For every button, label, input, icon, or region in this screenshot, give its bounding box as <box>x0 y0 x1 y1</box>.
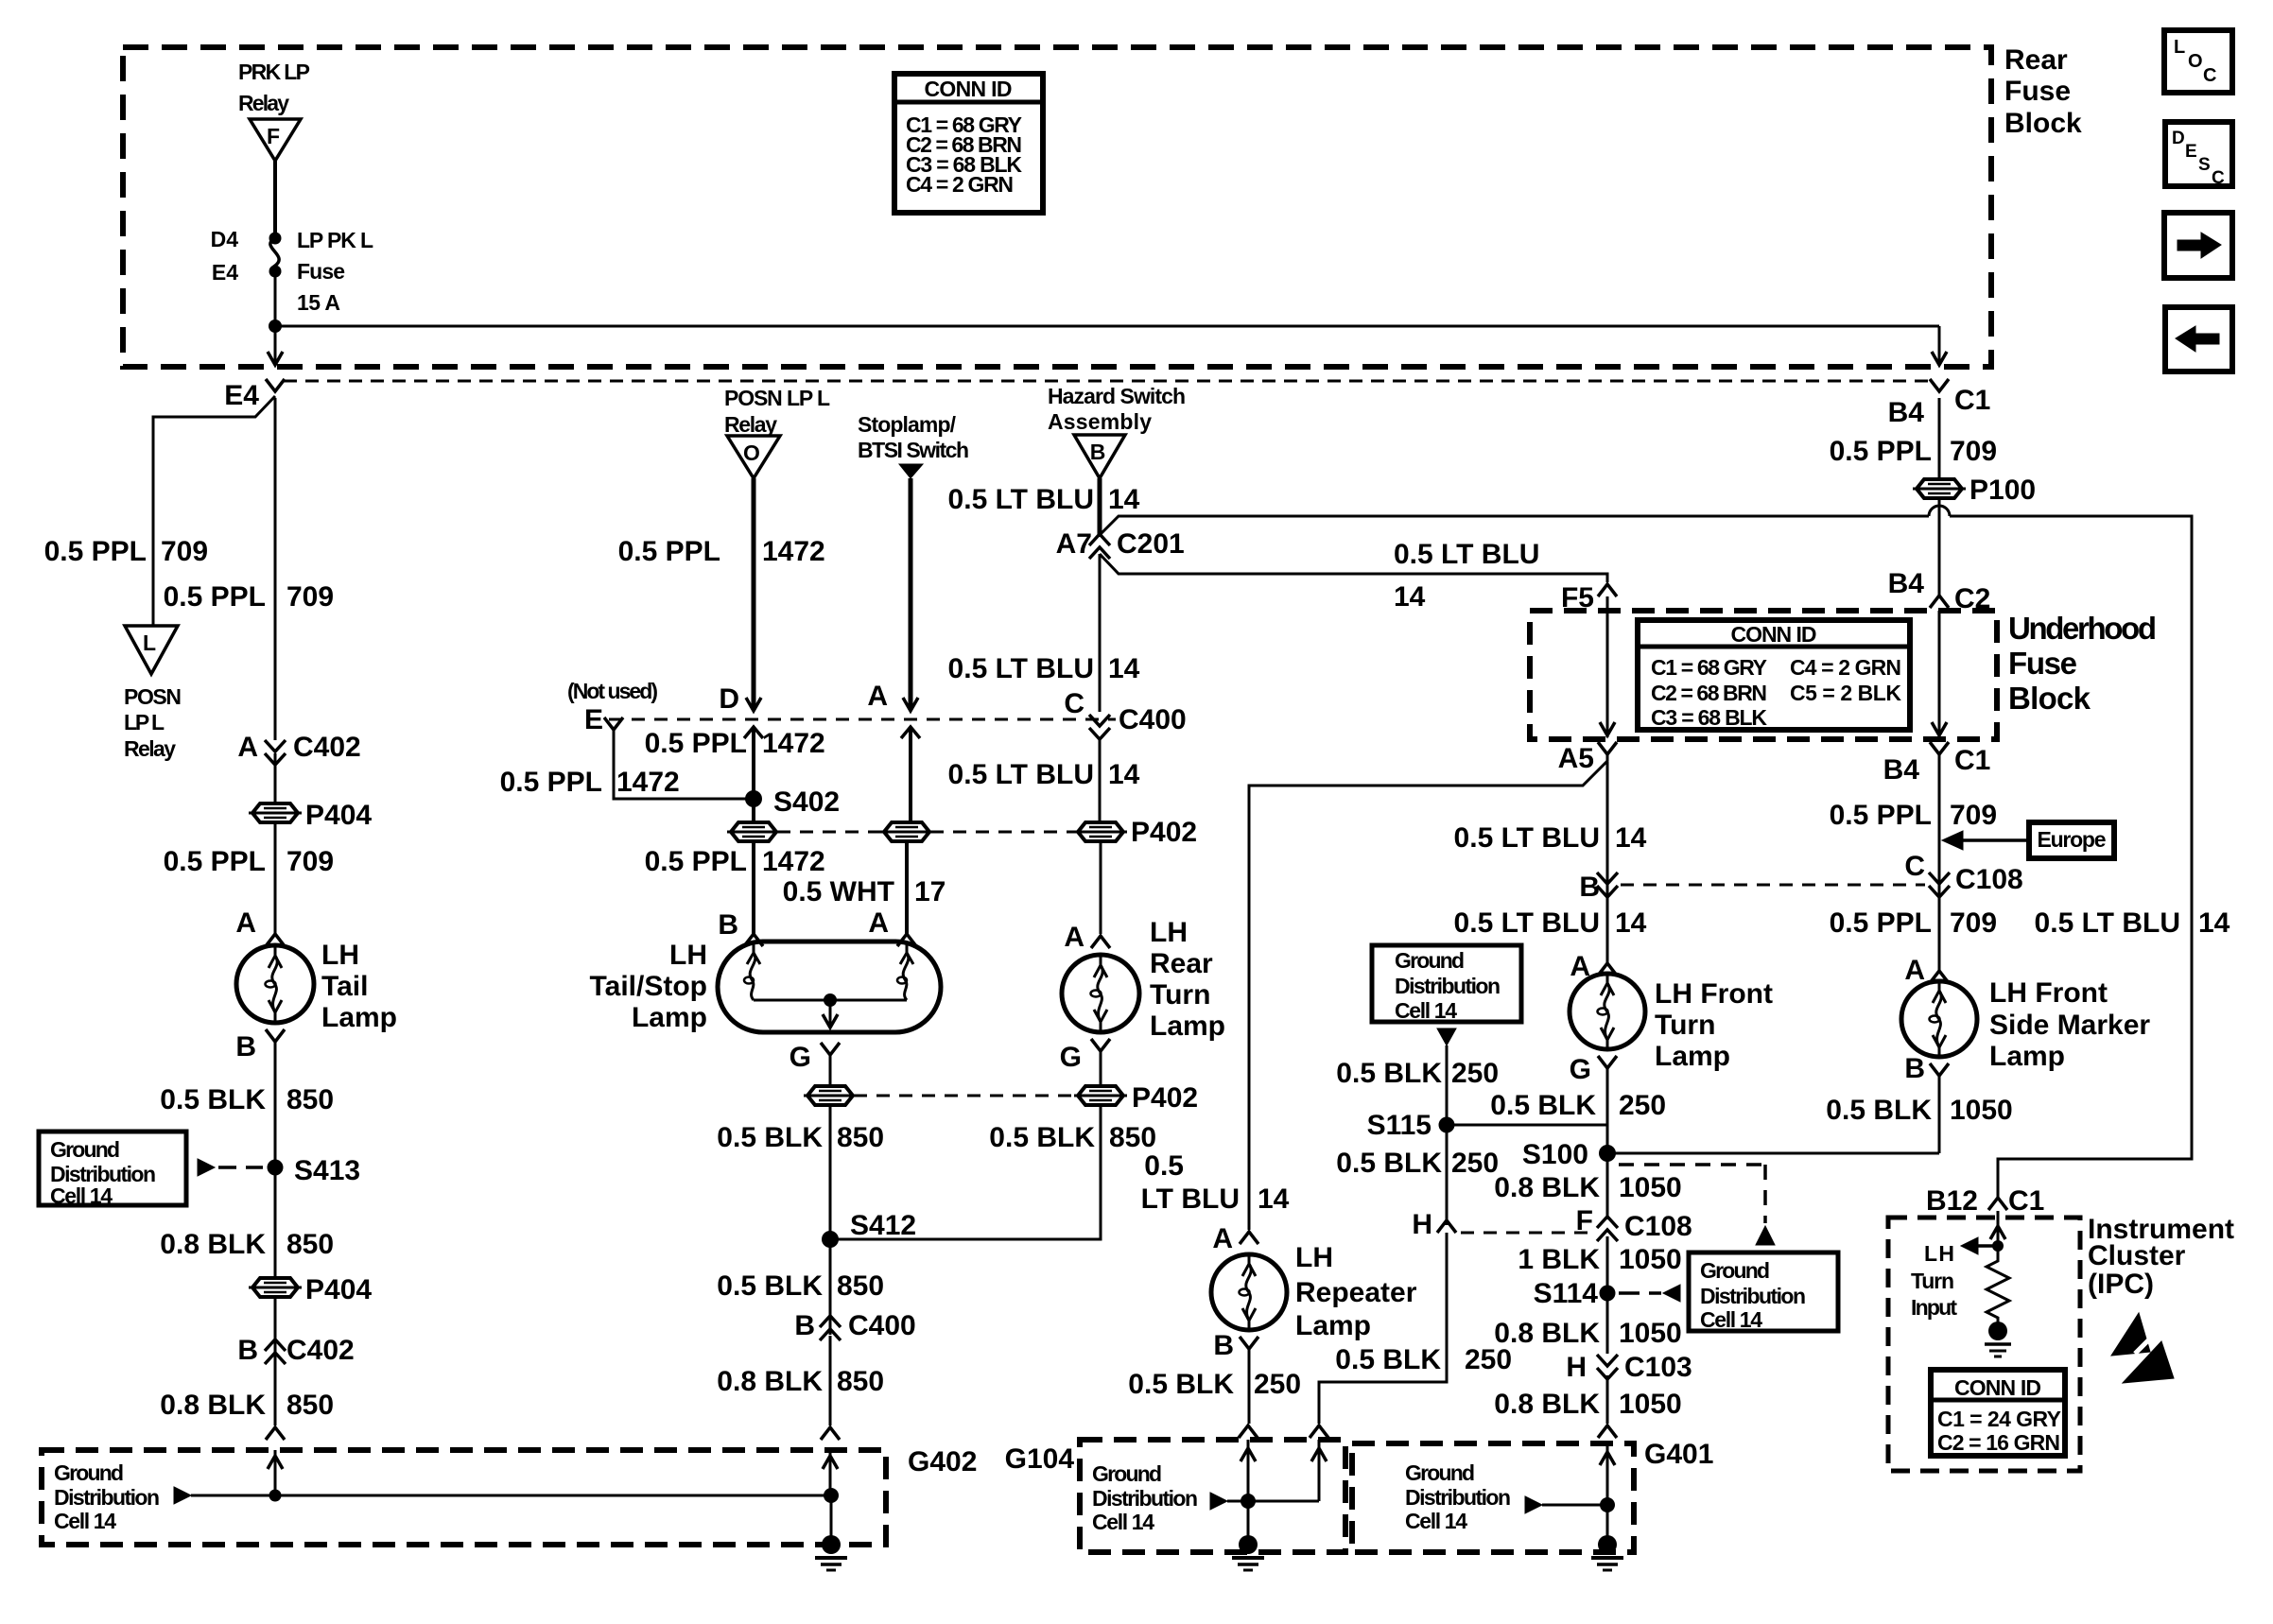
wire P402 to S412 <box>829 1105 832 1239</box>
svg-text:250: 250 <box>1619 1090 1666 1121</box>
svg-text:0.5 WHT: 0.5 WHT <box>783 876 894 907</box>
svg-text:C1: C1 <box>1954 385 1990 416</box>
pin into G401 <box>1598 1425 1617 1438</box>
label Hazard Switch Assembly <box>1048 384 1186 434</box>
svg-text:BTSI Switch: BTSI Switch <box>858 438 969 462</box>
relay PRK LP Relay label <box>238 60 310 115</box>
svg-text:1050: 1050 <box>1619 1172 1682 1203</box>
svg-text:CONN ID: CONN ID <box>925 77 1013 101</box>
svg-text:O: O <box>2188 51 2203 72</box>
svg-text:S115: S115 <box>1367 1110 1431 1141</box>
svg-text:0.5 BLK: 0.5 BLK <box>1826 1095 1932 1126</box>
wire rear turn return to S412 <box>830 1105 1101 1239</box>
wire repeater B to G104 <box>1248 1349 1251 1424</box>
wire C402 to P404 <box>274 753 277 803</box>
wire label 0.5 PPL 1472 below C400 <box>645 728 825 759</box>
reference arrow LH turn input <box>1961 1237 2004 1254</box>
wire S100 to side marker return <box>1607 1152 1939 1155</box>
lamp LH Front Side Marker Lamp <box>1901 981 1977 1057</box>
label LH Tail Stop Lamp <box>590 940 707 1033</box>
svg-text:P402: P402 <box>1131 817 1197 848</box>
reference arrow down from callout <box>1437 1028 1456 1045</box>
svg-text:Fuse: Fuse <box>2008 646 2077 681</box>
wire label 0.5 PPL 709 below C108 <box>1830 907 1997 939</box>
svg-text:0.5 BLK: 0.5 BLK <box>989 1122 1095 1153</box>
wire hop over PPL wire <box>1929 506 1950 516</box>
svg-text:1050: 1050 <box>1619 1244 1682 1275</box>
svg-text:PRK LP: PRK LP <box>238 60 310 84</box>
wire label 0.5 BLK 850 <box>160 1084 334 1115</box>
wire segment S115 bus to S100 <box>1606 1125 1609 1153</box>
svg-text:G104: G104 <box>1005 1443 1075 1475</box>
label B4 C2 at underhood top <box>1888 568 1991 614</box>
svg-text:250: 250 <box>1451 1058 1499 1089</box>
svg-text:0.8 BLK: 0.8 BLK <box>160 1229 266 1260</box>
ESD warning symbol <box>2111 1313 2174 1383</box>
dashed reference S100 to ground distribution <box>1619 1165 1775 1245</box>
label LH Turn Input <box>1911 1241 1957 1320</box>
svg-text:14: 14 <box>1615 907 1647 939</box>
svg-text:14: 14 <box>1108 759 1140 790</box>
node E4 fuse output <box>212 260 282 285</box>
label Stoplamp BTSI Switch <box>858 412 969 462</box>
svg-text:250: 250 <box>1451 1148 1499 1179</box>
svg-text:(IPC): (IPC) <box>2088 1269 2154 1300</box>
svg-text:709: 709 <box>1950 800 1997 831</box>
svg-text:D: D <box>719 683 739 715</box>
svg-text:LH: LH <box>1150 917 1188 948</box>
pin B of LH Repeater Lamp <box>1213 1330 1258 1361</box>
svg-text:Underhood: Underhood <box>2008 611 2157 646</box>
svg-text:C: C <box>2203 65 2216 86</box>
switch stoplamp source triangle <box>899 464 923 478</box>
Underhood Fuse Block dashed enclosure <box>1530 611 1997 739</box>
wire label 0.8 BLK 1050 below S100 <box>1494 1172 1681 1203</box>
svg-text:A: A <box>235 907 256 939</box>
wire label 0.5 LT BLU 14 above C400 <box>948 653 1140 684</box>
svg-text:0.5 PPL: 0.5 PPL <box>1830 436 1932 467</box>
pin A chevron below C400 <box>901 727 920 738</box>
pin G of LH Front Turn Lamp <box>1570 1054 1617 1085</box>
svg-text:0.5: 0.5 <box>1144 1150 1184 1182</box>
reference arrow in G401 <box>1525 1496 1542 1513</box>
connector row P402 dashed line lower <box>854 1095 1077 1097</box>
pin G of LH Tail Stop Lamp <box>789 1042 840 1073</box>
ground box G402 dashed enclosure <box>42 1450 886 1545</box>
svg-text:850: 850 <box>286 1229 334 1260</box>
svg-text:Ground: Ground <box>1700 1258 1770 1283</box>
label LH Rear Turn Lamp <box>1150 917 1225 1042</box>
svg-text:A: A <box>237 732 258 763</box>
reference arrow in G402 <box>174 1487 191 1504</box>
svg-text:B: B <box>794 1310 815 1341</box>
svg-text:Lamp: Lamp <box>1150 1011 1225 1042</box>
label Ground Distribution Cell 14 in G402 <box>54 1460 160 1533</box>
wire C1 to P100 <box>1938 398 1941 479</box>
wire S115 to front turn G <box>1447 1124 1607 1127</box>
svg-text:LH Front: LH Front <box>1989 977 2108 1009</box>
junction G104 <box>1241 1494 1256 1509</box>
svg-text:G: G <box>789 1042 811 1073</box>
ground box G401 dashed enclosure <box>1352 1443 1634 1552</box>
svg-text:A5: A5 <box>1558 743 1594 774</box>
wire common to lamp shell with arrow <box>823 1000 838 1028</box>
svg-text:A: A <box>868 907 889 939</box>
svg-text:15 A: 15 A <box>297 290 340 315</box>
svg-text:850: 850 <box>286 1390 334 1421</box>
svg-text:LH: LH <box>669 940 707 971</box>
svg-text:C1 = 68 GRY: C1 = 68 GRY <box>1651 655 1767 680</box>
svg-text:Lamp: Lamp <box>1295 1310 1371 1341</box>
pin C1 B4 of Underhood Fuse Block <box>1883 742 1991 786</box>
wire hazard B down to C201 <box>1098 478 1102 537</box>
svg-text:S413: S413 <box>294 1155 360 1186</box>
svg-text:A7: A7 <box>1056 528 1092 560</box>
svg-text:0.5 BLK: 0.5 BLK <box>717 1122 823 1153</box>
connector C402 pin B <box>237 1335 354 1366</box>
connector P402 pass-through lower right <box>1078 1086 1123 1105</box>
connector P402 pass-through on WHT wire <box>884 822 929 841</box>
wire label 0.5 BLK 1050 <box>1826 1095 2012 1126</box>
svg-text:14: 14 <box>1615 822 1647 854</box>
ground box G104 dashed enclosure <box>1080 1440 1345 1552</box>
connector P402 pass-through on LT BLU wire <box>1078 822 1123 841</box>
wire P402 to rear turn lamp <box>1100 841 1102 934</box>
pin A of LH Front Side Marker Lamp <box>1904 955 1949 986</box>
wire into G104 with up arrow right pin <box>1311 1440 1327 1501</box>
connector C402 pin A <box>237 732 360 765</box>
svg-text:1050: 1050 <box>1619 1389 1682 1420</box>
svg-text:Distribution: Distribution <box>1405 1485 1511 1510</box>
wire label 0.5 LT BLU 14 far right <box>2035 907 2230 939</box>
wire label 1 BLK 1050 <box>1518 1244 1681 1275</box>
relay POSN LP L triangle L <box>125 626 178 674</box>
svg-text:B: B <box>237 1335 258 1366</box>
connector P404 pass-through lower <box>249 1274 372 1305</box>
wire relay O to C400 D <box>752 478 756 709</box>
svg-text:C108: C108 <box>1624 1211 1692 1242</box>
connector pin C1 B4 at boundary <box>1888 379 1991 428</box>
lamp LH Tail Lamp <box>236 945 314 1023</box>
svg-text:0.5 PPL: 0.5 PPL <box>1830 800 1932 831</box>
wire label LT BLU 14 two line <box>1141 1183 1290 1215</box>
svg-text:Stoplamp/: Stoplamp/ <box>858 412 957 437</box>
svg-text:850: 850 <box>837 1270 884 1302</box>
label LH Front Side Marker Lamp <box>1989 977 2150 1072</box>
svg-text:S114: S114 <box>1534 1278 1599 1309</box>
pin B of LH Front Side Marker Lamp <box>1904 1053 1949 1084</box>
svg-text:P402: P402 <box>1132 1082 1198 1114</box>
wire label 0.5 BLK 850 left <box>717 1122 884 1153</box>
svg-text:C2 = 16 GRN: C2 = 16 GRN <box>1937 1430 2060 1455</box>
wire P404 to C402 B <box>274 1297 277 1366</box>
connector pin E4 at boundary <box>224 379 285 411</box>
svg-text:Cell 14: Cell 14 <box>54 1509 116 1533</box>
svg-text:17: 17 <box>914 876 946 907</box>
svg-text:P100: P100 <box>1969 475 2036 506</box>
wire label 0.8 BLK 1050 bottom <box>1494 1389 1681 1420</box>
svg-text:0.8 BLK: 0.8 BLK <box>160 1390 266 1421</box>
svg-text:Assembly: Assembly <box>1048 409 1152 434</box>
junction ground bus with G402 ground drop <box>824 1488 839 1503</box>
Instrument Cluster dashed enclosure <box>1888 1218 2080 1471</box>
CONN ID table (IPC) <box>1931 1370 2065 1456</box>
svg-text:850: 850 <box>837 1366 884 1397</box>
CONN ID table (Underhood Fuse Block) <box>1638 620 1910 730</box>
svg-text:1050: 1050 <box>1619 1318 1682 1349</box>
svg-text:709: 709 <box>1950 436 1997 467</box>
pin G of LH Rear Turn Lamp <box>1060 1039 1110 1073</box>
svg-text:Lamp: Lamp <box>1655 1041 1730 1072</box>
wire S100 down to C108 F <box>1606 1153 1609 1219</box>
svg-text:0.5 PPL: 0.5 PPL <box>1830 907 1932 939</box>
wire filament common bar <box>754 999 907 1002</box>
wire label 0.5 PPL 1472 E branch <box>500 767 680 798</box>
svg-text:P404: P404 <box>305 800 372 831</box>
connector P404 pass-through <box>249 800 372 831</box>
svg-text:H: H <box>1412 1209 1432 1240</box>
wire label 0.5 BLK 850 below S412 <box>717 1270 884 1302</box>
svg-text:A: A <box>1064 922 1084 953</box>
ground G402 earth symbol <box>815 1495 847 1570</box>
wire side marker B to S100 <box>1938 1076 1941 1153</box>
connector C103 pin H <box>1566 1352 1692 1383</box>
svg-text:Cell 14: Cell 14 <box>50 1183 113 1208</box>
wire tail lamp B to S413 <box>274 1042 277 1167</box>
svg-text:Input: Input <box>1911 1295 1957 1320</box>
svg-text:E4: E4 <box>224 380 259 411</box>
svg-text:Rear: Rear <box>2004 44 2068 76</box>
svg-text:Ground: Ground <box>50 1137 120 1162</box>
wire E4 down and 45-degree branch to POSN relay <box>153 396 275 626</box>
svg-text:LH: LH <box>1924 1241 1954 1266</box>
wire C201 to IPC via right edge <box>1100 516 1929 535</box>
connector P402 pass-through on PPL wire <box>731 822 776 841</box>
wire C400 B to G402 <box>829 1336 832 1425</box>
junction G401 <box>1600 1497 1615 1512</box>
svg-text:14: 14 <box>1108 653 1140 684</box>
svg-text:C201: C201 <box>1117 528 1185 560</box>
svg-text:0.5 BLK: 0.5 BLK <box>1128 1369 1234 1400</box>
splice S100 <box>1522 1139 1616 1170</box>
label POSN LP L Relay <box>124 684 182 761</box>
svg-text:Fuse: Fuse <box>2004 76 2071 107</box>
switch Hazard triangle B <box>1074 435 1125 478</box>
Europe label box <box>2029 822 2114 858</box>
node D4 <box>211 227 282 251</box>
svg-text:Turn: Turn <box>1655 1010 1715 1041</box>
svg-text:0.5 LT BLU: 0.5 LT BLU <box>948 653 1094 684</box>
svg-text:C400: C400 <box>1119 704 1187 735</box>
svg-text:Hazard Switch: Hazard Switch <box>1048 384 1186 408</box>
wire C1 underhood down to side marker <box>1938 754 1941 971</box>
relay PRK LP Relay triangle F <box>250 119 301 161</box>
pin into G402 box right <box>821 1427 840 1440</box>
svg-text:C402: C402 <box>293 732 361 763</box>
svg-text:1472: 1472 <box>616 767 680 798</box>
svg-text:1472: 1472 <box>762 536 825 567</box>
svg-text:Distribution: Distribution <box>1700 1284 1806 1308</box>
connector C400 pin C <box>1064 688 1186 739</box>
wire relay F to fuse D4 <box>273 161 277 238</box>
wire label 0.5 BLK 250 on S115 bus <box>1490 1090 1666 1121</box>
wire label 0.8 BLK 1050 below S114 <box>1494 1318 1681 1349</box>
connector C400 pin B <box>794 1310 915 1341</box>
wire C201 to F5 underhood <box>1100 554 1607 582</box>
connector C108 pin F <box>1576 1205 1692 1242</box>
svg-text:0.8 BLK: 0.8 BLK <box>1494 1389 1600 1420</box>
svg-text:0.8 BLK: 0.8 BLK <box>1494 1172 1600 1203</box>
svg-text:C3 = 68 BLK: C3 = 68 BLK <box>1651 705 1767 730</box>
svg-text:Turn: Turn <box>1911 1269 1954 1293</box>
wire C2 through underhood box with arrow <box>1932 611 1947 737</box>
svg-text:709: 709 <box>286 581 334 613</box>
wire S114 to C103 <box>1606 1293 1609 1354</box>
reference arrow in G104 <box>1210 1493 1227 1510</box>
svg-text:Distribution: Distribution <box>1092 1486 1198 1511</box>
svg-text:Relay: Relay <box>124 736 176 761</box>
svg-text:S412: S412 <box>850 1210 916 1241</box>
svg-text:C103: C103 <box>1624 1352 1692 1383</box>
svg-text:H: H <box>1566 1352 1587 1383</box>
svg-text:S: S <box>2198 155 2211 175</box>
svg-text:B4: B4 <box>1883 754 1920 786</box>
label LH Tail Lamp <box>321 940 397 1033</box>
label Instrument Cluster IPC <box>2088 1214 2234 1300</box>
svg-text:B: B <box>718 909 738 941</box>
wire label 0.5 BLK 850 right <box>989 1122 1156 1153</box>
svg-text:LH: LH <box>321 940 359 971</box>
wire into G402 with up arrow right <box>823 1450 838 1495</box>
wire P402 to tail stop lamp B <box>752 841 755 934</box>
svg-text:0.5 LT BLU: 0.5 LT BLU <box>1394 539 1539 570</box>
Rear Fuse Block dashed enclosure <box>123 47 1991 367</box>
wire label 0.5 PPL 709 below underhood <box>1830 800 1997 831</box>
svg-text:C: C <box>1904 851 1925 882</box>
pin A arrow into C400 <box>867 681 918 712</box>
svg-text:F: F <box>267 124 280 148</box>
pin A5 of Underhood Fuse Block <box>1558 742 1617 774</box>
pin into G104 left <box>1239 1425 1258 1438</box>
label LH Repeater Lamp <box>1295 1242 1417 1341</box>
svg-text:0.5 LT BLU: 0.5 LT BLU <box>1454 822 1600 854</box>
wire D to S402 <box>752 727 755 822</box>
wire label 0.5 PPL 709 main <box>164 581 334 613</box>
connector C201 pin A7 <box>1056 528 1185 560</box>
svg-text:C: C <box>1064 688 1084 719</box>
svg-text:0.5 PPL: 0.5 PPL <box>645 846 747 877</box>
wire A5 down to front turn lamp <box>1606 762 1609 963</box>
pin D chevron below C400 <box>744 727 763 738</box>
wire label 0.5 BLK 250 to G104 <box>1335 1344 1512 1375</box>
connector row C108 dashed line lower <box>1461 1232 1594 1235</box>
label LH Front Turn Lamp <box>1655 978 1773 1072</box>
wire label 0.5 BLK 250 below S115 <box>1336 1148 1499 1179</box>
svg-text:1472: 1472 <box>762 728 825 759</box>
svg-text:0.5 LT BLU: 0.5 LT BLU <box>948 759 1094 790</box>
wire into G401 with up arrow <box>1600 1443 1615 1505</box>
svg-text:850: 850 <box>286 1084 334 1115</box>
svg-text:0.5 BLK: 0.5 BLK <box>717 1270 823 1302</box>
svg-text:Rear: Rear <box>1150 948 1213 979</box>
svg-text:A: A <box>867 681 888 712</box>
wire F to S114 <box>1606 1236 1609 1293</box>
svg-text:Cluster: Cluster <box>2088 1240 2186 1271</box>
svg-text:B4: B4 <box>1888 568 1925 599</box>
svg-text:14: 14 <box>1394 581 1426 613</box>
svg-text:0.5 BLK: 0.5 BLK <box>1336 1148 1442 1179</box>
svg-text:0.8 BLK: 0.8 BLK <box>717 1366 823 1397</box>
splice S412 <box>822 1210 916 1248</box>
junction filament common <box>824 993 837 1007</box>
svg-text:0.5 PPL: 0.5 PPL <box>500 767 602 798</box>
svg-text:0.5 LT BLU: 0.5 LT BLU <box>1454 907 1600 939</box>
svg-text:Relay: Relay <box>724 412 777 437</box>
callout box Ground Distribution Cell 14 above S115 <box>1372 945 1521 1023</box>
svg-text:Ground: Ground <box>1405 1460 1475 1485</box>
svg-text:C1: C1 <box>1954 745 1990 776</box>
svg-text:Distribution: Distribution <box>1395 974 1501 998</box>
svg-text:B: B <box>1090 440 1106 464</box>
svg-text:B: B <box>235 1031 256 1063</box>
pin E not used <box>584 704 623 735</box>
icon box LOC <box>2164 30 2232 93</box>
wire callout to S115 <box>1446 1045 1449 1125</box>
fuse LP PK L 15A <box>270 228 373 315</box>
svg-text:E: E <box>584 704 603 735</box>
wire stoplamp to C400 A <box>909 478 913 709</box>
connector P100 pass-through <box>1913 475 2036 506</box>
svg-text:Cell 14: Cell 14 <box>1700 1307 1762 1332</box>
svg-text:Cell 14: Cell 14 <box>1405 1509 1467 1533</box>
label Ground Distribution Cell 14 in G401 <box>1405 1460 1511 1533</box>
svg-text:LT BLU: LT BLU <box>1141 1183 1240 1215</box>
lamp LH Repeater Lamp <box>1211 1254 1287 1330</box>
wire B12 into IPC with up arrow <box>1990 1211 2005 1246</box>
svg-text:(Not used): (Not used) <box>567 679 658 703</box>
wire label 0.5 BLK 250 repeater <box>1128 1369 1301 1400</box>
icon box DESC <box>2165 122 2232 188</box>
svg-text:1 BLK: 1 BLK <box>1518 1244 1600 1275</box>
pin B12 C1 of Instrument Cluster <box>1926 1185 2044 1217</box>
filament left of tail stop lamp <box>744 942 760 1000</box>
wire F5 through underhood box with arrow <box>1600 596 1615 737</box>
lamp LH Front Turn Lamp <box>1570 974 1645 1049</box>
svg-text:Fuse: Fuse <box>297 259 345 284</box>
svg-text:850: 850 <box>1109 1122 1156 1153</box>
svg-text:B12: B12 <box>1926 1185 1978 1217</box>
wire S115 down to C108 H <box>1446 1125 1449 1225</box>
wire E4 drop with arrow <box>268 326 283 365</box>
pin A of LH Tail Lamp <box>235 907 285 946</box>
pin A of LH Repeater Lamp <box>1212 1223 1258 1254</box>
svg-text:B: B <box>1904 1053 1925 1084</box>
wire label 0.5 LT BLU 14 below C108 B <box>1454 907 1647 939</box>
splice S413 <box>268 1155 361 1186</box>
svg-text:Cell 14: Cell 14 <box>1395 998 1457 1023</box>
svg-text:709: 709 <box>161 536 208 567</box>
wire C402 B to G402 boundary <box>274 1366 277 1425</box>
svg-text:250: 250 <box>1254 1369 1301 1400</box>
wire C1 drop with arrow <box>1932 326 1947 365</box>
wire label 0.8 BLK 850 lower <box>160 1390 334 1421</box>
svg-text:G401: G401 <box>1644 1439 1713 1470</box>
connector C108 pin C <box>1904 851 2022 897</box>
svg-text:709: 709 <box>1950 907 1997 939</box>
CONN ID table (Rear Fuse Block) <box>894 74 1043 213</box>
svg-text:0.5 BLK: 0.5 BLK <box>1335 1344 1441 1375</box>
wire ground bus G402 <box>191 1494 831 1497</box>
